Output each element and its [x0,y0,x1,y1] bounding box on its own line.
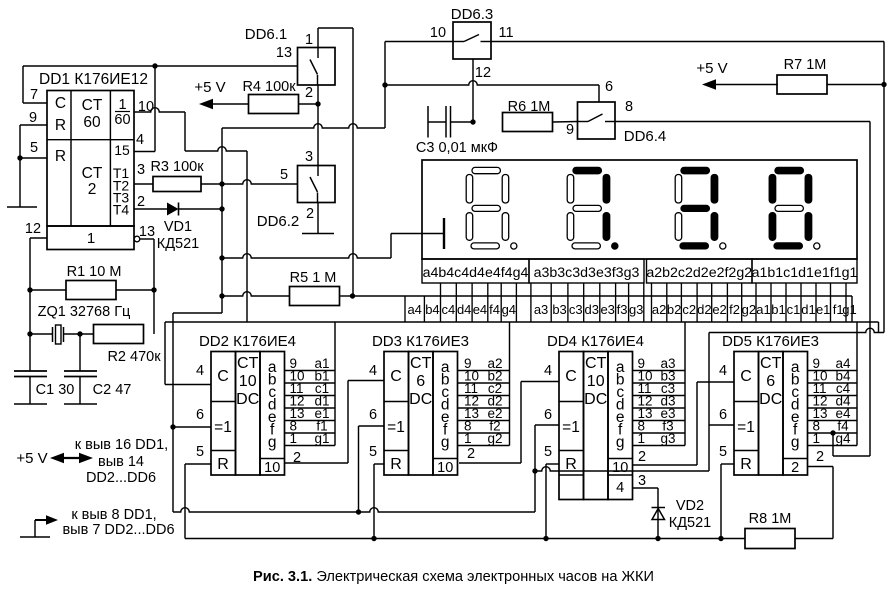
svg-text:b3: b3 [552,302,566,317]
svg-text:d4: d4 [457,302,471,317]
svg-text:a4: a4 [407,302,421,317]
svg-text:DD2 К176ИЕ4: DD2 К176ИЕ4 [199,333,296,350]
wire: DD3 pin 2 carry to DD4 pin 4 [459,462,521,464]
svg-text:DD6.4: DD6.4 [624,128,667,145]
svg-text:1: 1 [87,230,95,247]
wire: C2 bottom lead to common [79,377,81,405]
LCD digit 4 showing 0 [769,167,820,249]
LCD backplane electrode [443,218,445,249]
junction C3/R6/DD6.3 pin12 [470,119,475,124]
junction R5 line left [219,293,224,298]
bundle band top line (from R5 node) [353,295,852,297]
svg-text:f3: f3 [617,302,628,317]
svg-text:R7 1М: R7 1М [784,57,827,73]
svg-text:13: 13 [139,224,155,240]
svg-text:R1 10 M: R1 10 M [67,264,122,280]
common bar near DD1 [7,206,37,208]
svg-text:выв 7 DD2...DD6: выв 7 DD2...DD6 [62,522,174,538]
resistor R2 [94,325,162,366]
svg-text:12: 12 [25,221,41,237]
LCD digit 1 (blank, all segments off) [466,167,517,249]
svg-text:1: 1 [305,32,313,48]
svg-text:C: C [390,368,402,385]
svg-text:+5 V: +5 V [194,79,225,96]
wire: DD4 pin 2 carry to DD5 pin 4 [633,464,698,466]
svg-text:12: 12 [475,65,491,81]
resistor R7 [777,57,827,94]
+5 V supply arrow at R4 [194,79,248,109]
resistor R5 [290,270,340,306]
DD1 pin 13 inversion circle [134,236,140,242]
svg-text:R5 1 М: R5 1 М [290,270,337,286]
junction =1 link at DD4 riser [532,468,537,473]
svg-text:CT: CT [410,355,432,372]
svg-text:C: C [55,95,66,112]
wires: display pins down to bundle [441,283,847,296]
wire: C1 bottom lead to common [29,377,31,405]
svg-text:10: 10 [264,460,280,476]
wire: ZQ1 leads [30,333,53,335]
svg-text:6: 6 [605,79,613,95]
wire: =1 bus [173,508,535,512]
junction backplane [219,255,224,260]
svg-text:10: 10 [437,460,453,476]
resistor R4 [242,79,298,114]
common bar under DD6.2 [302,233,334,235]
svg-text:C: C [565,368,577,385]
analog switch DD6.3 [451,6,494,59]
svg-text:b1: b1 [771,302,785,317]
svg-text:6: 6 [369,407,377,423]
junction DD3 =1 riser [356,509,361,514]
svg-text:+5 V: +5 V [16,450,47,467]
svg-text:3: 3 [137,162,145,178]
svg-text:g: g [441,434,450,451]
svg-text:2: 2 [305,85,313,101]
wire: DD1 pin 13 to R1/R2 [140,238,154,240]
capacitor C3 0,01 мкФ [416,106,498,156]
junction ZQ1 left [27,331,32,336]
svg-text:CT: CT [760,355,782,372]
wire: seconds vertical down to DD2 clock [246,151,248,322]
DD2 bundle riser [334,322,336,446]
bundle trunk right jog [857,321,879,323]
wire: DD3 =1 riser [359,425,385,427]
svg-text:к выв 16 DD1,: к выв 16 DD1, [75,437,168,453]
svg-text:DD1 К176ИЕ12: DD1 К176ИЕ12 [39,71,148,88]
wire: phase net top bus to C3 node [222,124,385,128]
wire: R8 right lead [795,538,833,540]
LCD digit 2 showing 7 with dot [567,167,618,249]
svg-text:13: 13 [276,45,292,61]
svg-text:R: R [740,456,752,473]
svg-text:5: 5 [369,444,377,460]
svg-text:CT: CT [82,97,103,114]
svg-text:2: 2 [816,449,824,465]
svg-text:2: 2 [88,181,97,198]
wire: phase net vertical [221,128,223,313]
svg-text:8: 8 [625,99,633,115]
svg-text:R: R [55,148,66,165]
svg-text:1: 1 [638,431,646,446]
wire: DD6.1 pin 2 to R4 and DD6.2 pin 3 [317,85,319,166]
wire: DD1 pin 9 stub [20,124,47,126]
svg-text:5: 5 [719,444,727,460]
wire: node to DD6.4 pin 6 [385,81,599,85]
svg-text:f4: f4 [489,302,500,317]
svg-text:=1: =1 [562,419,580,436]
svg-text:2: 2 [791,460,799,476]
svg-text:3: 3 [638,473,646,489]
analog switch DD6.1 [245,26,335,85]
svg-text:VD2: VD2 [676,498,704,514]
svg-text:6: 6 [719,407,727,423]
wire: right rail over to DD5 =1 riser [709,328,884,332]
svg-text:КД521: КД521 [157,236,199,252]
diode VD2 КД521 [652,498,712,531]
svg-text:g1: g1 [314,431,329,446]
svg-text:КД521: КД521 [669,515,711,531]
junction R4/DD6.1 pin2 [315,101,320,106]
svg-text:2: 2 [467,446,475,462]
LCD pin group box a3b3c3d3e3f3g3 [529,259,644,283]
+5 V supply note with double arrow [16,437,168,486]
svg-text:Рис. 3.1. Электрическая схема: Рис. 3.1. Электрическая схема электронны… [253,569,654,585]
LCD digit 3 showing 3 [675,167,726,249]
junction DD4 R [543,536,548,541]
svg-text:e4: e4 [473,302,487,317]
svg-text:2: 2 [137,194,145,210]
counter IC DD3 К176ИЕ3 [372,333,469,476]
svg-text:4: 4 [136,132,144,148]
svg-text:DD2...DD6: DD2...DD6 [86,470,156,486]
wire: DD6.3 pin 10 to left node [385,41,453,43]
svg-text:1: 1 [464,431,472,446]
svg-text:C2 47: C2 47 [93,382,132,398]
svg-text:d1: d1 [801,302,815,317]
svg-text:DD6.2: DD6.2 [257,213,300,230]
wire: backplane line to display [222,254,391,258]
bundle trunk line [247,321,857,323]
svg-text:e3: e3 [600,302,614,317]
svg-text:R: R [217,456,229,473]
counter IC DD2 К176ИЕ4 [199,333,296,476]
figure caption [253,569,654,585]
svg-text:1: 1 [290,431,298,446]
svg-text:+5 V: +5 V [696,60,727,77]
svg-text:10: 10 [587,373,605,390]
svg-text:a1b1c1d1e1f1g1: a1b1c1d1e1f1g1 [752,265,858,281]
svg-text:6: 6 [196,407,204,423]
resistor R1 [66,264,121,300]
wire: phase net to =1 inputs [173,312,222,314]
wire: R4 right lead [299,103,318,105]
svg-text:6: 6 [544,407,552,423]
svg-text:a2: a2 [652,302,666,317]
wire: DD4 pin 3 to VD2 cathode [633,487,659,489]
capacitor C2 47 [64,334,131,398]
svg-text:d3: d3 [585,302,599,317]
LCD pin group box a1b1c1d1e1f1g1 [752,259,858,283]
junction R5 right [350,293,355,298]
wire: DD3 pin 5 (R) riser [374,463,384,465]
svg-text:g4: g4 [835,431,851,446]
counter IC DD1 К176ИЕ12 [39,71,148,250]
svg-text:5: 5 [280,167,288,183]
junction DD3 R [371,536,376,541]
wire: DD6.2 pin 2 to common bar [317,203,319,234]
junction VD1 cathode [219,206,224,211]
svg-text:11: 11 [498,25,513,41]
svg-text:e2: e2 [712,302,726,317]
svg-text:g1: g1 [842,302,856,317]
LCD display panel [422,160,857,259]
wire: R6 right lead [553,121,578,124]
junction R3/phase vertical [219,181,224,186]
DD4 pin rows with outputs [633,356,686,446]
bundle band signal labels [407,302,856,317]
svg-text:R3 100к: R3 100к [150,159,204,175]
resistor R8 [745,511,795,549]
svg-text:DC: DC [759,391,782,408]
svg-text:15: 15 [114,142,130,158]
svg-text:DD6.3: DD6.3 [451,6,494,23]
svg-text:к выв 8 DD1,: к выв 8 DD1, [71,507,156,523]
svg-text:a1: a1 [756,302,770,317]
common bar under C1 [14,403,47,405]
svg-text:DC: DC [236,391,259,408]
wire: DD2 pin 6 stub [173,426,211,428]
common bar under C2 [64,403,97,405]
svg-text:5: 5 [196,444,204,460]
svg-text:CT: CT [237,355,259,372]
wire: DD1 pin7 feedback from top rail [22,66,24,103]
svg-text:DD4 К176ИЕ4: DD4 К176ИЕ4 [547,333,644,350]
wire: DD6.4 pin 8 to DD5 pin 8 (f4) [615,121,870,123]
svg-text:3: 3 [305,149,313,165]
svg-text:5: 5 [30,140,38,156]
svg-text:g3: g3 [660,431,675,446]
svg-text:R: R [390,456,402,473]
svg-text:DC: DC [584,391,607,408]
junction VD2 anode [655,536,660,541]
svg-text:4: 4 [544,363,552,379]
svg-text:1: 1 [118,97,126,113]
junction on DD6.3 pin10 drop [382,82,387,87]
wire: DD5 =1 riser to =1 bus [535,467,709,471]
svg-text:g2: g2 [742,302,756,317]
svg-text:R4 100к: R4 100к [242,79,296,95]
svg-text:a3: a3 [534,302,548,317]
DD2 pin rows with outputs [285,356,336,446]
analog switch DD6.4 [578,102,667,145]
wire: DD1 pin 10 to seconds line [134,108,185,112]
svg-text:60: 60 [83,114,101,131]
svg-text:b2: b2 [667,302,681,317]
svg-text:2: 2 [638,449,646,465]
svg-text:c3: c3 [569,302,583,317]
wire: DD4 =1 riser from =1 bus [535,424,559,426]
junction DD2 pin 6 [170,424,175,429]
bundle band wire ticks [405,296,846,322]
LCD pin group box a2b2c2d2e2f2g2 [646,259,752,283]
resistor R3 [153,177,201,192]
svg-text:C: C [740,368,752,385]
svg-text:c4: c4 [442,302,456,317]
counter IC DD5 К176ИЕ3 [722,333,819,476]
svg-text:4: 4 [369,363,377,379]
svg-text:=1: =1 [737,419,755,436]
svg-text:C1 30: C1 30 [36,382,75,398]
svg-text:b4: b4 [425,302,439,317]
svg-text:a2b2c2d2e2f2g2: a2b2c2d2e2f2g2 [646,265,752,281]
wire: DD5 pin 2 to R8 right [808,466,833,468]
LCD pin group box a4b4c4d4e4f4g4 [422,259,529,283]
junction DD5 f4 row [830,430,835,435]
wire: R3 right to phase node [201,180,298,184]
svg-text:g: g [616,434,625,451]
junction R1 right [151,287,156,292]
svg-text:60: 60 [114,112,130,128]
junction ZQ1 right / C2 [77,331,82,336]
svg-text:C3 0,01 мкФ: C3 0,01 мкФ [416,140,498,156]
wire: DD2 pin 2 carry to DD3 pin 4 [285,462,349,464]
DD4 bundle riser [684,322,686,446]
svg-text:4: 4 [196,363,204,379]
DD5 pin rows with outputs [808,356,858,446]
svg-text:c2: c2 [682,302,696,317]
wire: DD6.1 pin 1 up and over [317,28,319,48]
DD3 bundle riser [509,322,511,446]
junction DD5 R [718,536,723,541]
crystal ZQ1 32768 Гц [38,304,131,344]
svg-text:5: 5 [544,444,552,460]
svg-text:a3b3c3d3e3f3g3: a3b3c3d3e3f3g3 [534,265,640,281]
counter IC DD4 К176ИЕ4 [547,333,644,500]
svg-text:e1: e1 [816,302,830,317]
+5 V supply arrow at R7 [696,60,778,90]
wire: DD4 pin 5 (R) riser [546,463,559,465]
svg-text:g2: g2 [487,431,502,446]
svg-text:=1: =1 [214,419,232,436]
svg-text:a4b4c4d4e4f4g4: a4b4c4d4e4f4g4 [423,265,529,281]
analog switch DD6.2 [257,166,335,231]
diode VD1 КД521 [134,203,222,253]
svg-text:d2: d2 [697,302,711,317]
svg-text:g4: g4 [502,302,516,317]
svg-text:6: 6 [766,373,775,390]
wire: oscillator top rail to DD6.1 pin 13 [23,65,298,67]
svg-text:CT: CT [82,165,103,182]
svg-text:g: g [791,434,800,451]
wire: DD6.3 pin 12 down to C3/R6 node [472,59,474,122]
wire: R7 right lead [827,84,884,86]
svg-text:g: g [268,434,277,451]
DD5 bundle riser [856,322,858,446]
wire: DD5 =1 stub [709,424,734,426]
svg-text:DD6.1: DD6.1 [245,26,288,43]
svg-text:g3: g3 [629,302,643,317]
junction R1 left [27,287,32,292]
svg-text:9: 9 [29,110,37,126]
wire: DD2 pin 5 (R) to reset bus [185,463,211,465]
wire: DD1 pin 5 stub to common [20,157,47,159]
wire: branch to DD2 pin 4 (C) [165,321,247,323]
svg-text:c1: c1 [787,302,801,317]
wire: DD6.1 pin1 net down to R5 right [352,28,354,296]
svg-text:R: R [565,456,577,473]
junction R7 right [881,82,886,87]
svg-text:=1: =1 [387,419,405,436]
svg-text:выв 14: выв 14 [98,454,144,470]
svg-text:1: 1 [813,431,821,446]
DD3 pin rows with outputs [458,356,510,446]
wire: DD1 pin 12 down left side [30,237,47,239]
common wire note with arrow [20,507,175,538]
svg-text:2: 2 [306,206,314,222]
wire: DD5 pin 5 (R) riser [721,463,734,465]
svg-text:ZQ1 32768 Гц: ZQ1 32768 Гц [38,304,131,320]
svg-text:CT: CT [585,355,607,372]
svg-text:7: 7 [30,87,38,103]
wire: R1 leads [30,289,66,291]
svg-text:R2 470к: R2 470к [107,349,161,365]
svg-text:T4: T4 [113,202,130,218]
svg-text:f2: f2 [729,302,740,317]
svg-text:10: 10 [612,460,628,476]
svg-text:R8 1М: R8 1М [749,511,792,527]
svg-text:C: C [217,368,229,385]
bundle band right edge [851,296,853,322]
wire: R5 right lead [340,295,354,297]
reset bus [185,538,745,540]
svg-text:DD5 К176ИЕ3: DD5 К176ИЕ3 [722,333,819,350]
svg-text:R6 1М: R6 1М [508,99,551,115]
junction pin9/pin5 [17,155,22,160]
wire: R5 left lead [222,292,290,296]
svg-text:9: 9 [566,122,574,138]
svg-text:R: R [55,117,66,134]
svg-text:10: 10 [239,373,257,390]
wire: DD6.3 pin 11 to right rail [491,41,884,43]
svg-text:6: 6 [416,373,425,390]
wire: DD1 pin3 to R3 [134,183,153,185]
svg-text:4: 4 [719,363,727,379]
junction on top rail [152,63,157,68]
svg-text:VD1: VD1 [164,219,192,235]
svg-text:4: 4 [616,480,624,496]
wire: top rail down to DD1 pin 4 [154,66,156,152]
svg-text:10: 10 [430,25,446,41]
resistor R6 [503,99,553,132]
svg-text:DC: DC [409,391,432,408]
capacitor C1 30 [14,371,74,398]
svg-text:DD3 К176ИЕ3: DD3 К176ИЕ3 [372,333,469,350]
